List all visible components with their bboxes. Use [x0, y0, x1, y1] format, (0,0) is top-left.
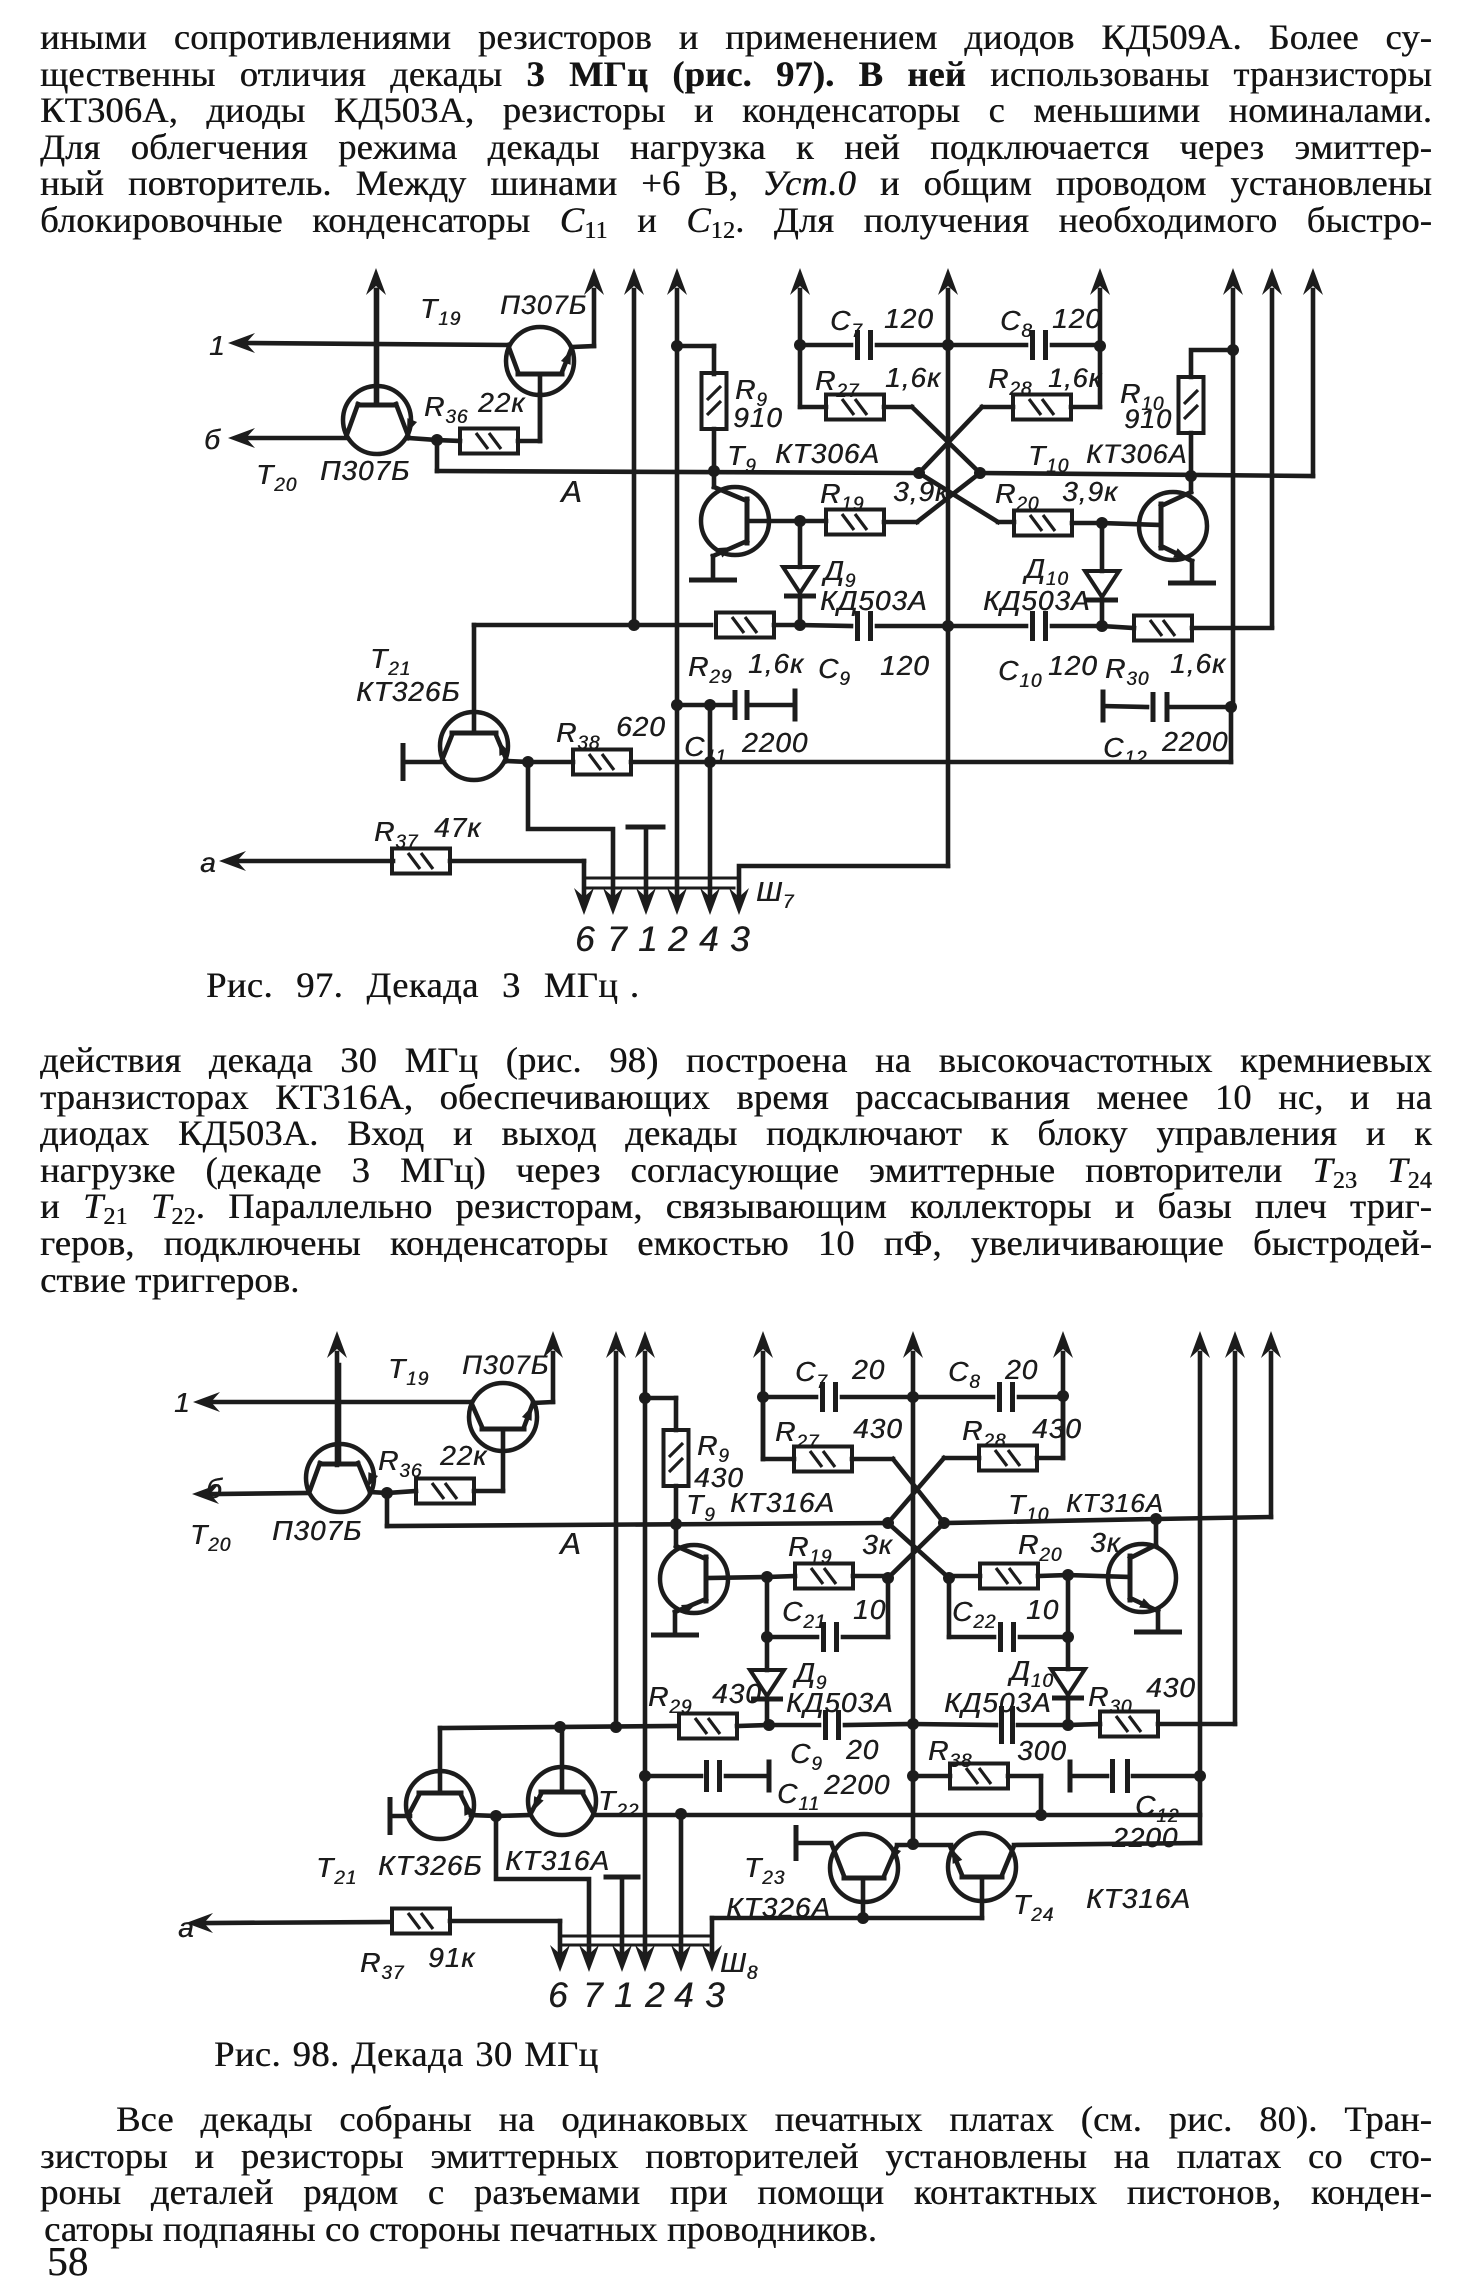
T10 collector line: [980, 473, 1313, 476]
svg-text:а: а: [200, 847, 217, 878]
svg-text:2: 2: [644, 1976, 665, 2015]
svg-text:Т20​: Т20​: [256, 459, 297, 496]
svg-text:Т19​: Т19​: [388, 1353, 429, 1390]
svg-text:Ш8​: Ш8​: [720, 1947, 758, 1984]
pin7 path fig98: [496, 1816, 589, 1962]
svg-text:1: 1: [174, 1387, 191, 1418]
capacitor C22 10: [1066, 1575, 1071, 1637]
line A fig98: [385, 1493, 390, 1526]
rail x1100 (C8/R28 right): [1090, 268, 1110, 295]
resistor R30 430 fig98: [1100, 1712, 1158, 1737]
svg-text:С7​: С7​: [795, 1356, 828, 1393]
transistor T20: [343, 386, 411, 454]
pin 4 wire fig98: [679, 1814, 684, 1962]
svg-text:620: 620: [616, 711, 666, 742]
T21 input terminal: [401, 743, 406, 781]
T23 input terminal: [794, 1825, 799, 1861]
svg-text:С9​: С9​: [818, 653, 851, 690]
svg-text:А: А: [558, 1526, 582, 1561]
svg-text:R30​: R30​: [1105, 653, 1149, 690]
supply rail x634 (T21 collector rail): [624, 268, 644, 295]
pin 1 terminal bar: [628, 825, 663, 830]
svg-text:R38​: R38​: [928, 1735, 972, 1772]
resistor R29 430 fig98: [679, 1714, 737, 1739]
svg-text:2200: 2200: [1161, 726, 1228, 757]
svg-text:10: 10: [1026, 1594, 1059, 1625]
svg-text:1,6к: 1,6к: [1048, 363, 1103, 393]
capacitor C10 300 fig98: [913, 1724, 996, 1725]
resistor R20 3k fig98: [980, 1564, 1038, 1589]
svg-text:R37​: R37​: [360, 1947, 405, 1984]
capacitor C21 10: [765, 1577, 770, 1637]
svg-text:7: 7: [583, 1976, 604, 2015]
rail x1063 (C8/R28 right): [1053, 1331, 1073, 1358]
svg-text:Т21​: Т21​: [316, 1852, 357, 1889]
transistor T19 fig98: [469, 1383, 537, 1451]
svg-text:300: 300: [1017, 1735, 1067, 1766]
svg-text:П307Б: П307Б: [500, 290, 587, 320]
svg-text:КТ316А: КТ316А: [1086, 1883, 1191, 1914]
ground of T9: [689, 578, 737, 583]
capacitor C12 2200 fig98: [1068, 1760, 1073, 1793]
resistor R36 22k: [460, 429, 518, 454]
pin 1 terminal bar fig98: [606, 1875, 638, 1880]
svg-text:R38​: R38​: [556, 717, 600, 754]
diode D10 fig98: [1066, 1637, 1071, 1669]
cross-coupling diagonals upper: [912, 407, 980, 473]
svg-text:КТ316А: КТ316А: [1066, 1488, 1164, 1518]
svg-text:КТ306А: КТ306А: [1086, 439, 1187, 469]
svg-text:С21​: С21​: [782, 1596, 826, 1633]
transistor T24: [948, 1833, 1016, 1901]
emitter followers T23 T24 output line: [712, 1916, 982, 1921]
wire T19 emitter to rail x594: [572, 346, 594, 347]
svg-text:430: 430: [853, 1413, 903, 1444]
svg-text:Т9​: Т9​: [686, 1489, 716, 1526]
svg-text:R28​: R28​: [962, 1415, 1006, 1452]
svg-text:910: 910: [1124, 404, 1172, 434]
svg-text:4: 4: [699, 920, 719, 959]
svg-text:R29​: R29​: [688, 651, 732, 688]
svg-text:КТ316А: КТ316А: [730, 1487, 835, 1518]
rail x1235 (R30 rail): [1225, 1331, 1245, 1358]
resistor R9 430 (vertical) fig98: [664, 1430, 689, 1486]
capacitor C11 2200: [671, 699, 683, 711]
svg-text:R27​: R27​: [775, 1416, 820, 1453]
diode D9 KD503A: [798, 521, 803, 567]
transistor T21: [440, 712, 508, 780]
svg-text:КД503А: КД503А: [944, 1687, 1052, 1718]
svg-text:КТ326А: КТ326А: [726, 1892, 831, 1923]
svg-text:2: 2: [667, 920, 688, 959]
svg-text:КТ306А: КТ306А: [775, 438, 880, 469]
output line 1: [193, 1392, 220, 1412]
resistor R38 620: [573, 750, 631, 775]
svg-text:С11​: С11​: [777, 1778, 820, 1815]
bus rail x645 (pin 2 rail): [635, 1331, 655, 1358]
transistor T10 fig98: [1108, 1544, 1176, 1612]
svg-text:20: 20: [1004, 1354, 1038, 1385]
resistor R38 300 fig98: [950, 1764, 1008, 1789]
svg-text:R30​: R30​: [1088, 1681, 1132, 1718]
svg-text:120: 120: [1048, 650, 1098, 681]
svg-text:R37​: R37​: [374, 816, 419, 853]
svg-text:С8​: С8​: [948, 1356, 981, 1393]
svg-text:КД503А: КД503А: [820, 585, 928, 616]
transistor T9 fig98: [660, 1545, 728, 1613]
connector bus bracket Sh8: [560, 1935, 712, 1938]
svg-text:R27​: R27​: [815, 365, 860, 402]
pin 3 wire fig98: [710, 1918, 715, 1962]
svg-text:Т19​: Т19​: [420, 293, 461, 330]
resistor R10 910 (vertical): [1179, 377, 1204, 433]
svg-text:Т20​: Т20​: [190, 1519, 231, 1556]
node: T20 emitter / R36 / line A junction: [431, 434, 443, 446]
rail x1233 (R10 top / C12): [1223, 268, 1243, 295]
svg-text:R36​: R36​: [424, 391, 468, 428]
resistor R27 430 fig98: [794, 1447, 852, 1472]
svg-text:3,9к: 3,9к: [893, 476, 950, 507]
svg-text:Т21​: Т21​: [370, 643, 411, 680]
transistor T20 fig98: [306, 1444, 374, 1512]
diode D10 KD503A: [1100, 523, 1105, 571]
T10 collector line fig98: [944, 1517, 1271, 1523]
rail x616 (T21/T22 collector rail): [606, 1331, 626, 1358]
transistor T23: [830, 1834, 898, 1902]
svg-text:4: 4: [674, 1976, 694, 2015]
svg-text:а: а: [178, 1912, 195, 1943]
transistor T10: [1139, 492, 1207, 560]
resistor R20 3.9k: [1014, 511, 1072, 536]
capacitor C8: [948, 343, 1026, 348]
capacitor C9 20 fig98: [769, 1723, 819, 1728]
svg-text:П307Б: П307Б: [272, 1515, 362, 1546]
svg-text:3к: 3к: [1090, 1527, 1122, 1558]
line A (T9 collector line): [435, 440, 440, 471]
transistor T9: [701, 487, 769, 555]
cross diagonals fig98: [893, 1459, 944, 1523]
svg-text:3: 3: [705, 1976, 725, 2015]
transistor T19: [506, 327, 574, 395]
ground of T10: [1168, 581, 1216, 586]
svg-text:22к: 22к: [439, 1440, 488, 1471]
pin 3 wire from center rail: [739, 866, 948, 905]
svg-text:430: 430: [712, 1678, 762, 1709]
svg-text:б: б: [204, 424, 221, 455]
svg-text:R20​: R20​: [1018, 1529, 1062, 1566]
svg-text:С7​: С7​: [830, 305, 863, 342]
rail x1313 (T10 collector rail): [1303, 268, 1323, 295]
transistor T21 fig98: [406, 1771, 474, 1839]
ground of T10 fig98: [1134, 1630, 1182, 1635]
resistor R29 1.6k: [716, 613, 774, 638]
svg-text:С8​: С8​: [1000, 305, 1033, 342]
resistor R28 1.6k: [1013, 395, 1071, 420]
node T21 emitter: [522, 756, 534, 768]
node T21-T22 emitter-base: [490, 1810, 502, 1822]
collector rail line T21/T22 y1727: [440, 1726, 678, 1728]
ground of T9 fig98: [651, 1633, 699, 1638]
supply rail arrow x594 (T19 emitter rail): [584, 268, 604, 295]
svg-text:2200: 2200: [823, 1769, 890, 1800]
output line 1 (left arrow): [228, 333, 255, 353]
rail x1200 (R10 top / C12): [1190, 1331, 1210, 1358]
coupling line y625 with R29 C9 C10 R30: [474, 623, 711, 628]
svg-text:R28​: R28​: [988, 363, 1032, 400]
svg-text:20: 20: [845, 1734, 879, 1765]
capacitor C8 20: [913, 1395, 993, 1400]
svg-text:120: 120: [1052, 303, 1102, 334]
svg-text:R29​: R29​: [648, 1681, 692, 1718]
svg-text:20: 20: [851, 1354, 885, 1385]
svg-text:R36​: R36​: [378, 1445, 422, 1482]
output line a with R37 47k: [219, 851, 246, 871]
svg-text:Ш7​: Ш7​: [756, 876, 795, 913]
svg-text:47к: 47к: [434, 812, 482, 843]
resistor R19 3k fig98: [795, 1564, 853, 1589]
svg-text:1,6к: 1,6к: [1170, 648, 1227, 679]
rail x763 (C7/R27 left): [753, 1331, 773, 1358]
svg-text:С22​: С22​: [952, 1596, 996, 1633]
svg-text:1: 1: [209, 330, 226, 361]
wire emitter line to C12 node: [1229, 707, 1234, 762]
svg-text:10: 10: [853, 1594, 886, 1625]
resistor R27 1.6k: [826, 395, 884, 420]
resistor R28 430 fig98: [979, 1446, 1037, 1471]
svg-text:1,6к: 1,6к: [885, 362, 942, 393]
svg-text:1,6к: 1,6к: [748, 648, 805, 679]
output line б: [228, 428, 255, 448]
svg-text:П307Б: П307Б: [320, 455, 410, 486]
node T20 emitter / R36: [381, 1487, 393, 1499]
supply rail arrow x376 (T20 collector): [366, 268, 386, 295]
svg-text:Т24​: Т24​: [1013, 1889, 1054, 1926]
rail x800 (C7/R27 left): [790, 268, 810, 295]
svg-text:П307Б: П307Б: [462, 1350, 549, 1380]
caps supply line C7: [800, 343, 851, 348]
emitter follower output to pin7: [528, 762, 613, 905]
svg-text:6: 6: [548, 1976, 568, 2015]
svg-text:С9​: С9​: [790, 1738, 823, 1775]
svg-text:С10​: С10​: [998, 655, 1042, 692]
svg-text:Т23​: Т23​: [744, 1852, 785, 1889]
bus rail x677 (pin 2 rail): [667, 268, 687, 295]
pin 4 wire: [704, 699, 716, 711]
resistor R19 3.9k: [826, 510, 884, 535]
rail x1272 (R30 rail): [1262, 268, 1282, 295]
svg-text:120: 120: [884, 303, 934, 334]
svg-text:КТ326Б: КТ326Б: [378, 1850, 483, 1881]
resistor R30 1.6k: [1134, 616, 1192, 641]
rail arrow x337 (T20 collector): [327, 1331, 347, 1358]
rail x1271 (T10 collector rail): [1261, 1331, 1281, 1358]
svg-text:R20​: R20​: [995, 478, 1039, 515]
svg-text:2200: 2200: [1111, 1822, 1178, 1853]
svg-text:КТ316А: КТ316А: [505, 1845, 610, 1876]
svg-text:910: 910: [733, 402, 783, 433]
capacitor C11 2200 fig98: [639, 1770, 651, 1782]
resistor R9 910 (vertical): [702, 373, 727, 429]
svg-text:7: 7: [607, 920, 628, 959]
svg-text:б: б: [206, 1473, 223, 1504]
svg-text:3к: 3к: [862, 1529, 894, 1560]
rail arrow x553 (T19 emitter rail): [543, 1331, 563, 1358]
svg-text:91к: 91к: [428, 1942, 476, 1973]
capacitor C12 2200: [1101, 690, 1106, 723]
svg-text:120: 120: [880, 650, 930, 681]
T21 input terminal fig98: [388, 1797, 393, 1835]
svg-text:2200: 2200: [741, 727, 808, 758]
svg-text:3: 3: [730, 920, 750, 959]
output line a with R37 91k fig98: [186, 1913, 213, 1933]
transistor T22 fig98: [528, 1767, 596, 1835]
center rail x948: [938, 268, 958, 295]
center rail x913: [903, 1331, 923, 1358]
capacitor C7 20: [763, 1395, 816, 1400]
svg-text:А: А: [559, 474, 583, 509]
svg-text:1: 1: [614, 1976, 634, 2015]
svg-text:КТ326Б: КТ326Б: [356, 676, 461, 707]
long emitter line y1815: [594, 1813, 1200, 1818]
diode D9 fig98: [765, 1637, 770, 1670]
svg-text:430: 430: [1146, 1672, 1196, 1703]
resistor R36 22k fig98: [416, 1479, 474, 1504]
output line б: [192, 1484, 219, 1504]
svg-text:1: 1: [638, 920, 658, 959]
svg-text:КД503А: КД503А: [983, 585, 1091, 616]
svg-text:22к: 22к: [477, 387, 526, 418]
capacitor C10 120: [948, 624, 1026, 629]
connector bus bracket Sh7: [584, 877, 738, 880]
svg-text:430: 430: [1032, 1413, 1082, 1444]
svg-text:6: 6: [575, 920, 595, 959]
svg-text:3,9к: 3,9к: [1062, 476, 1119, 507]
